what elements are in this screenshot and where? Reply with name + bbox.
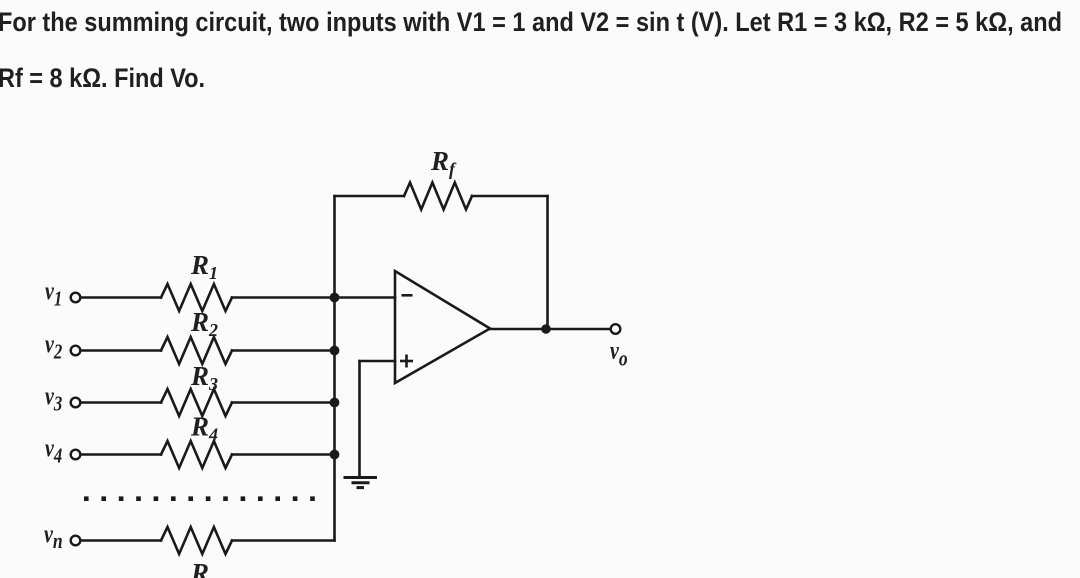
resistor R1 bbox=[161, 284, 232, 311]
op-amp plus sign bbox=[400, 355, 413, 368]
resistor Rn bbox=[161, 527, 232, 554]
wire: v2 input lead bbox=[80, 349, 161, 352]
svg-text:For the summing circuit, two i: For the summing circuit, two inputs with… bbox=[0, 7, 1062, 37]
resistor R2 bbox=[161, 337, 232, 364]
wire: v3 input lead bbox=[80, 401, 161, 404]
node: junction v3/bus bbox=[330, 398, 340, 408]
wire: vn input lead bbox=[80, 539, 161, 542]
terminal v4 bbox=[71, 450, 81, 460]
wire: v1 to bus bbox=[232, 296, 335, 299]
wire: op-amp output bbox=[490, 328, 611, 331]
wire: v2 to bus bbox=[232, 349, 335, 352]
op-amp U1 triangle bbox=[395, 271, 490, 383]
wire: feedback top left segment bbox=[335, 195, 405, 198]
terminal vo output bbox=[611, 324, 621, 334]
node: output/feedback junction bbox=[541, 324, 551, 334]
wire: v4 to bus bbox=[232, 453, 335, 456]
wire: v1 input lead bbox=[80, 296, 161, 299]
node: junction v2/bus bbox=[330, 346, 340, 356]
node: junction v1/bus bbox=[330, 293, 340, 303]
wire: inverting-input bus vertical bbox=[333, 196, 336, 541]
op-amp minus sign bbox=[402, 294, 413, 297]
wire: op-amp noninverting input bbox=[360, 360, 396, 363]
terminal v1 bbox=[71, 293, 81, 303]
wire: noninverting to ground vertical bbox=[358, 361, 361, 477]
terminal v2 bbox=[71, 346, 81, 356]
svg-text:Rf = 8 kΩ. Find Vo.: Rf = 8 kΩ. Find Vo. bbox=[0, 63, 205, 93]
terminal vn bbox=[71, 536, 81, 546]
wire: feedback top right segment bbox=[472, 195, 548, 198]
node: junction v4/bus bbox=[330, 450, 340, 460]
wire: feedback right vertical bbox=[546, 196, 549, 329]
wire: v3 to bus bbox=[232, 401, 335, 404]
ground bbox=[344, 478, 378, 488]
dotted continuation line bbox=[84, 496, 315, 501]
resistor R3 bbox=[161, 389, 232, 416]
wire: vn to bus bbox=[232, 539, 335, 542]
resistor Rf bbox=[404, 183, 472, 210]
terminal v3 bbox=[71, 398, 81, 408]
wire: bus to op-amp inverting input bbox=[335, 296, 396, 299]
wire: v4 input lead bbox=[80, 453, 161, 456]
resistor R4 bbox=[161, 441, 232, 468]
